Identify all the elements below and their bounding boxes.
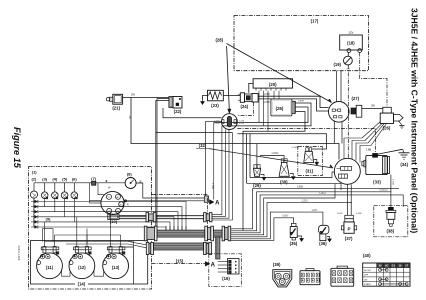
middle cable connector 2 — [205, 226, 208, 241]
marker A (bottom) — [205, 261, 210, 266]
svg-text:(37): (37) — [345, 236, 353, 241]
D-connector (39) — [273, 270, 292, 287]
indicator lamp (4) — [52, 192, 59, 199]
wire from (33) down to sensor bus — [390, 175, 392, 192]
svg-text:P: P — [347, 226, 350, 231]
wire to (29) — [256, 144, 258, 165]
svg-text:1.25G: 1.25G — [301, 201, 307, 203]
oil pressure sender (37) — [345, 215, 354, 218]
svg-text:0.85B: 0.85B — [356, 213, 362, 215]
harness fan from (26) — [362, 122, 381, 139]
wire harness fan f6 — [231, 212, 323, 239]
marker A (top) — [209, 200, 214, 205]
wires from relay circle (27) down to 2B wire — [333, 121, 335, 143]
svg-text:(7): (7) — [91, 176, 97, 181]
wire from (25) pin 2 — [214, 107, 308, 123]
relay circle (27) — [329, 102, 350, 123]
feed pump (31) — [306, 148, 308, 152]
wire from (20) to connector (24) — [249, 83, 253, 92]
controller (25) — [271, 99, 292, 116]
svg-text:(31): (31) — [305, 169, 313, 174]
8-pin connector B — [331, 268, 354, 286]
svg-text:OFF: OFF — [364, 275, 369, 277]
wires cable to (16) — [218, 261, 228, 263]
indicator lamp (6) — [71, 192, 78, 199]
gauge panel box (14) — [31, 241, 148, 284]
gauge ground wire — [123, 247, 134, 284]
svg-text:(38): (38) — [386, 229, 394, 234]
wire from key base into thin cable — [118, 217, 120, 219]
svg-text:(14): (14) — [78, 282, 86, 287]
dash-dot box (38) — [374, 205, 408, 237]
svg-text:0.85R: 0.85R — [264, 101, 271, 104]
svg-text:1.8(W): 1.8(W) — [271, 152, 278, 155]
svg-text:1.25B: 1.25B — [214, 123, 220, 125]
glow sensor (38) — [388, 207, 393, 210]
svg-text:(3): (3) — [42, 177, 48, 182]
ground of (30) — [290, 174, 293, 176]
dash-dot stub at (24) — [237, 102, 253, 115]
svg-text:A: A — [211, 262, 216, 268]
dash-dot box (31) — [298, 147, 323, 176]
leader line (32) to key switch circle — [209, 149, 333, 168]
svg-text:0.85B: 0.85B — [297, 187, 303, 189]
svg-text:1.25B: 1.25B — [392, 179, 394, 185]
svg-text:0.85R: 0.85R — [337, 213, 343, 215]
middle cable connector 3 — [222, 226, 225, 241]
svg-text:(6): (6) — [72, 177, 78, 182]
gauge (12) — [69, 253, 95, 279]
svg-text:(23): (23) — [211, 103, 219, 108]
wire harness fan f7 — [231, 218, 294, 241]
svg-text:AC: AC — [116, 196, 119, 199]
wire 1.8W to (30) — [260, 156, 284, 159]
cable segment — [213, 230, 222, 237]
bus into key switch circle left — [250, 172, 335, 178]
svg-text:X2644-1SDL: X2644-1SDL — [17, 246, 21, 262]
wire (23)-(24) — [223, 95, 240, 97]
key switch base — [108, 214, 119, 219]
svg-text:(11): (11) — [46, 265, 54, 270]
lamp supply bus — [34, 182, 92, 184]
wire harness fan f3 — [231, 195, 404, 233]
bus stub — [247, 183, 341, 190]
svg-text:W: W — [108, 187, 111, 190]
svg-text:(34): (34) — [400, 162, 408, 167]
svg-text:1.25B: 1.25B — [211, 183, 213, 189]
contacts inside (27) — [332, 109, 335, 111]
ground of (36) — [327, 237, 330, 239]
svg-text:(1): (1) — [32, 170, 38, 175]
svg-text:1.25R: 1.25R — [264, 93, 271, 96]
svg-text:2W: 2W — [131, 93, 135, 97]
cable (15) middle section — [157, 230, 205, 237]
svg-text:(8): (8) — [127, 172, 133, 177]
harness bundle riser to bus A — [249, 134, 251, 178]
svg-text:GLOW: GLOW — [364, 270, 372, 272]
svg-text:1.25-2: 1.25-2 — [319, 193, 326, 195]
svg-text:(33): (33) — [373, 180, 381, 185]
harness bundle wire h133 — [237, 134, 326, 149]
svg-text:G1: G1 — [392, 263, 396, 267]
terminal block (20) — [253, 79, 292, 88]
ground of (26) — [399, 121, 402, 125]
battery cable (dash-dot) branch to starter motor (33) — [237, 129, 375, 155]
leader line (28) to relay circle (27) — [227, 44, 332, 103]
svg-text:(15): (15) — [176, 258, 184, 263]
ground of (29) — [261, 175, 264, 177]
gauge link wires — [62, 271, 71, 277]
gauge feed risers — [43, 222, 45, 242]
cable (15) lower section — [153, 243, 203, 250]
indicator lamp (3) — [41, 192, 48, 199]
svg-text:(19): (19) — [333, 62, 341, 67]
svg-text:(26): (26) — [383, 125, 391, 130]
key switch (10) — [101, 191, 124, 214]
svg-text:R: R — [127, 204, 129, 207]
wire 2B from (21) junction down and right to key switch (32) — [131, 98, 339, 160]
svg-text:(13): (13) — [112, 265, 120, 270]
svg-text:(5): (5) — [62, 177, 68, 182]
svg-text:1.25(B): 1.25(B) — [291, 147, 298, 149]
wire down to marker A — [213, 123, 215, 200]
buzzer (2) — [30, 191, 37, 198]
svg-text:1.25Y: 1.25Y — [311, 210, 317, 212]
svg-text:(39): (39) — [273, 262, 281, 267]
connector at right of (27) — [351, 108, 356, 114]
svg-text:12V: 12V — [348, 30, 353, 34]
svg-text:(16): (16) — [222, 276, 230, 281]
svg-text:(20): (20) — [269, 82, 277, 87]
wire 0.85R (24) to relay circle (27) — [258, 99, 329, 111]
wire from (25) pin 3 — [243, 112, 305, 231]
svg-text:*: * — [105, 180, 107, 186]
indicator lamp (5) — [61, 192, 68, 199]
svg-text:2B: 2B — [128, 115, 132, 118]
engine key switch circle (32) — [334, 158, 360, 184]
svg-text:0.85Y: 0.85Y — [282, 216, 288, 218]
leader line (28) to stop solenoid circle — [227, 46, 230, 110]
connector (24) — [240, 93, 244, 103]
svg-text:0.85R: 0.85R — [298, 101, 304, 103]
connector (16) — [228, 259, 240, 275]
wire 1.8B (33) to ground (34) — [376, 149, 403, 154]
wire 2W (21)-(22) — [123, 97, 169, 99]
svg-text:1.25R: 1.25R — [239, 123, 245, 125]
connector (21) — [113, 94, 123, 104]
lower cable connector right — [204, 242, 207, 254]
svg-text:0.85(G): 0.85(G) — [380, 190, 388, 192]
wire harness fan f1 — [231, 189, 399, 229]
svg-text:1.8B: 1.8B — [366, 148, 372, 152]
connector on thin cable (right) — [204, 213, 207, 222]
gauge riser wires — [43, 242, 45, 247]
lower cable connector left — [146, 242, 149, 254]
svg-text:START: START — [364, 283, 372, 286]
ground of (31) — [314, 160, 317, 162]
relay (22) — [169, 97, 173, 108]
pin ticks under (20) — [255, 88, 257, 91]
svg-text:(17): (17) — [311, 18, 319, 23]
8-pin connector A — [300, 271, 320, 285]
wire from relay (22) to stop solenoid — [163, 108, 221, 118]
svg-text:ON: ON — [364, 279, 368, 281]
wires from relay (22) down to harness — [157, 99, 169, 231]
wire 2W (27)-(26) — [362, 108, 383, 110]
ground lead of (23) — [203, 96, 208, 101]
battery cable (dash-dot) from battery + to motor (26) — [360, 53, 387, 108]
middle cable connector 1 — [144, 226, 147, 241]
svg-text:(22): (22) — [174, 109, 182, 114]
battery cable (dash-dot) from switch (19) to key switch (32) — [347, 65, 349, 159]
svg-text:(27): (27) — [351, 96, 359, 101]
key switch left wires — [89, 183, 91, 203]
ground (34) — [403, 149, 404, 152]
sensor (29) — [254, 165, 257, 169]
battery (18) — [340, 35, 363, 50]
contact table (40) — [363, 263, 410, 286]
dash-dot enclosure box (17) — [234, 16, 369, 71]
svg-text:AC: AC — [385, 263, 389, 267]
harness bus wire y132 — [156, 132, 233, 134]
svg-text:Figure 15: Figure 15 — [12, 127, 22, 169]
contacts inside (32) — [341, 167, 352, 171]
gauge bus wires — [44, 241, 128, 243]
wires from key switch circle to sender (37) — [347, 184, 349, 215]
svg-text:(18): (18) — [347, 41, 355, 46]
label (15) — [173, 258, 188, 264]
svg-text:A: A — [215, 201, 220, 207]
svg-text:(29): (29) — [253, 183, 261, 188]
wire harness fan f2 — [231, 192, 391, 231]
svg-text:(25): (25) — [276, 106, 284, 111]
svg-text:(28): (28) — [215, 37, 223, 42]
harness bundle riser to bus B — [246, 134, 248, 184]
ground of (35) — [297, 236, 301, 238]
wire from key switch 30 terminal to marker A — [126, 200, 204, 202]
gauge (13) — [103, 253, 129, 279]
label (9) — [44, 216, 53, 221]
air heater (23) — [208, 90, 224, 101]
svg-text:(2): (2) — [31, 177, 37, 182]
fan tails to key switch circle (32) — [344, 138, 362, 159]
sensor (35) — [293, 218, 295, 224]
svg-text:(12): (12) — [78, 265, 86, 270]
diode block (9) — [33, 198, 35, 227]
svg-text:(4): (4) — [52, 177, 58, 182]
wires from gauge bus to cable — [128, 242, 146, 245]
sensor (36) — [319, 225, 329, 234]
dash-dot leader to marker A (bottom) — [152, 263, 206, 265]
panel harness verticals into cable — [185, 226, 187, 230]
svg-text:(21): (21) — [112, 106, 120, 111]
wires from (17) into relay circle (27) — [336, 71, 338, 102]
wire harness fan f4 — [231, 184, 335, 235]
inline connector before marker A — [204, 196, 208, 202]
starter motor (33) — [366, 155, 388, 174]
svg-text:2W: 2W — [371, 104, 375, 108]
panel bus wires to harness — [39, 202, 187, 231]
dash-dot link line to marker A — [152, 195, 208, 254]
svg-text:(40): (40) — [363, 253, 371, 258]
connector on thin cable (left) — [146, 213, 149, 222]
wire drops from terminal block (20) — [258, 91, 260, 123]
svg-text:{10}: {10} — [110, 219, 118, 224]
cable to connector (16) — [216, 237, 220, 259]
dash-dot box around (16) — [209, 254, 242, 286]
svg-text:(36): (36) — [319, 241, 327, 246]
dash-dot instrument panel box (1) — [29, 167, 152, 289]
cable (15) upper thin pair — [119, 215, 146, 217]
svg-text:(9): (9) — [46, 217, 52, 222]
wire from stop solenoid left to marker A junction — [206, 121, 222, 198]
wire 1.25R (24) to relay circle (27) — [258, 96, 329, 107]
thin cable fan to solenoid wires — [212, 126, 222, 215]
motor (26) — [383, 107, 392, 113]
svg-text:(35): (35) — [290, 241, 298, 246]
engine stop solenoid circle — [222, 114, 238, 130]
wire 1B from (8) to marker A — [136, 183, 204, 198]
svg-text:3JH5E / 4JH5E with C-Type Inst: 3JH5E / 4JH5E with C-Type Instrument Pan… — [410, 8, 420, 233]
wire harness fan f5 — [231, 203, 352, 237]
lamp drop wires — [44, 197, 46, 206]
gauge (11) — [37, 253, 63, 279]
sensor (30) — [281, 159, 283, 163]
wire from (25) pin 1 — [222, 103, 311, 126]
battery switch (19) — [347, 53, 349, 57]
svg-text:(24): (24) — [240, 104, 248, 109]
